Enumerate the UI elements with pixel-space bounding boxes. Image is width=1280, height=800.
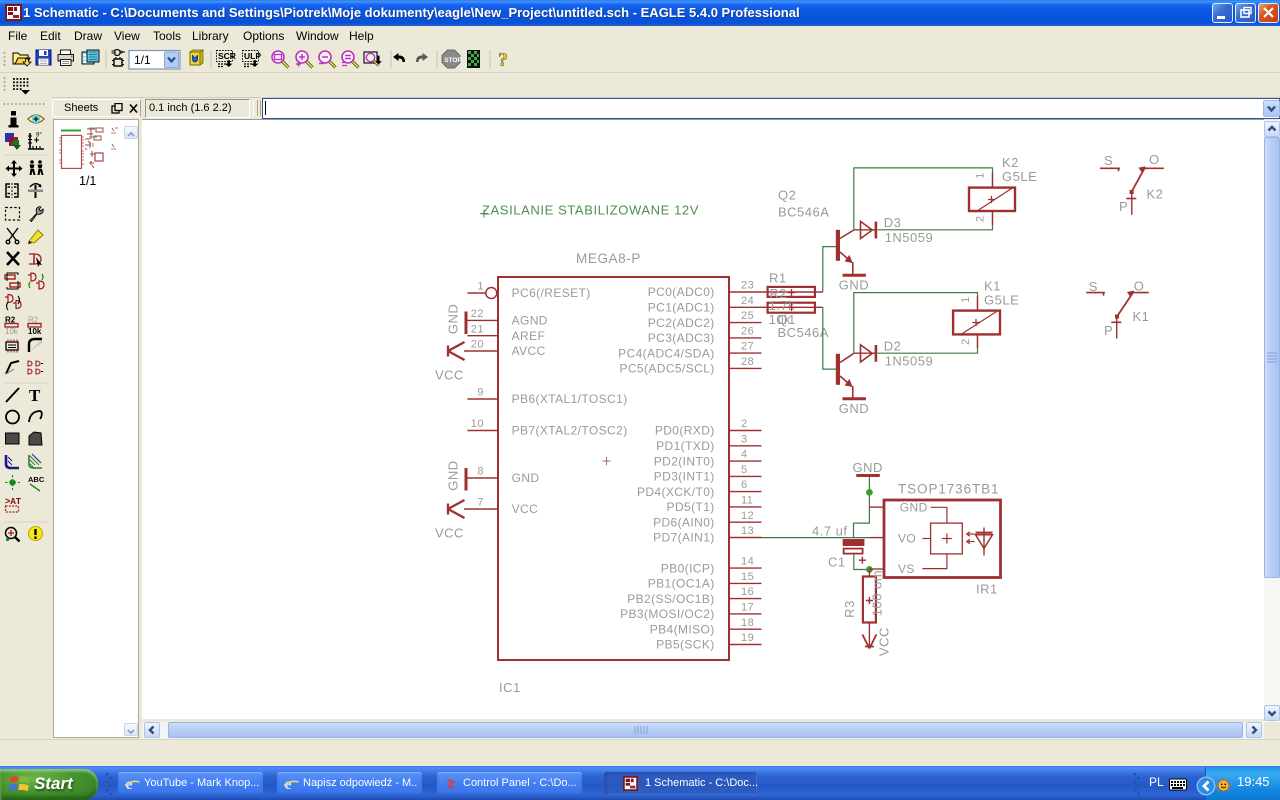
junction dot VS net [866, 566, 873, 573]
net from D3 cathode to relay K2 pin2 [878, 211, 993, 230]
pin 21 AREF [467, 323, 545, 343]
pin 10 PB7(XTAL2/TOSC2) [467, 418, 627, 438]
svg-text:PC1(ADC1): PC1(ADC1) [648, 301, 715, 315]
svg-text:14: 14 [741, 556, 754, 568]
IR receiver module IR1 TSOP1736 [884, 500, 1001, 578]
svg-text:G5LE: G5LE [1002, 169, 1037, 184]
svg-text:10k: 10k [28, 327, 42, 336]
svg-text:GND: GND [446, 460, 461, 490]
capacitor C1 [843, 539, 870, 570]
svg-text:ZASILANIE STABILIZOWANE 12V: ZASILANIE STABILIZOWANE 12V [482, 203, 699, 218]
svg-text:IR1: IR1 [976, 582, 998, 597]
diode D2 [854, 345, 876, 362]
svg-text:15: 15 [741, 571, 754, 583]
svg-text:PD2(INT0): PD2(INT0) [654, 454, 715, 468]
svg-text:STOP: STOP [444, 57, 462, 64]
svg-text:22: 22 [471, 308, 484, 320]
pin 22 AGND [466, 308, 548, 328]
svg-text:19: 19 [741, 632, 754, 644]
right pins PB0-PB5 [620, 556, 761, 652]
pin 20 AVCC [464, 339, 546, 359]
svg-text:GND: GND [853, 460, 883, 475]
svg-text:PB3(MOSI/OC2): PB3(MOSI/OC2) [620, 607, 715, 621]
svg-text:21: 21 [471, 323, 484, 335]
svg-text:12: 12 [741, 510, 754, 522]
svg-text:GND: GND [839, 278, 869, 293]
right pins PD0-PD7 [637, 418, 762, 545]
svg-text:PD7(AIN1): PD7(AIN1) [653, 531, 715, 545]
ground bar below Q2 [843, 274, 866, 277]
svg-text:28: 28 [741, 356, 754, 368]
TSOP VS pin stub [869, 568, 884, 570]
IR light arrows [967, 532, 975, 544]
keyboard tray icon [1169, 778, 1187, 791]
op IC1 MEGA8-P body [498, 277, 729, 660]
svg-text:25: 25 [741, 310, 754, 322]
svg-text:T: T [29, 386, 41, 405]
svg-text:5: 5 [741, 464, 748, 476]
pin 1 PC6(/RESET) [467, 281, 590, 301]
VCC arrow at pin 7 [448, 500, 465, 518]
svg-text:AVCC: AVCC [512, 344, 546, 358]
net from D2 cathode to relay K1 pin2 [878, 334, 978, 353]
svg-text:G5LE: G5LE [984, 293, 1019, 308]
svg-text:P: P [1104, 323, 1113, 338]
svg-text:2: 2 [975, 215, 987, 222]
switch contact K1 [1086, 291, 1149, 338]
svg-text:PB0(ICP): PB0(ICP) [661, 561, 715, 575]
svg-text:PB7(XTAL2/TOSC2): PB7(XTAL2/TOSC2) [512, 424, 628, 438]
svg-text:PB4(MISO): PB4(MISO) [650, 622, 715, 636]
svg-text:4: 4 [741, 449, 748, 461]
svg-text:PD5(T1): PD5(T1) [667, 500, 715, 514]
svg-text:PB2(SS/OC1B): PB2(SS/OC1B) [627, 592, 715, 606]
svg-text:P: P [1119, 199, 1128, 214]
TSOP internal plus [942, 534, 952, 544]
svg-text:R3: R3 [842, 600, 857, 618]
svg-text:D2: D2 [884, 339, 902, 354]
svg-text:PC5(ADC5/SCL): PC5(ADC5/SCL) [619, 362, 714, 376]
svg-text:K1: K1 [984, 279, 1001, 294]
svg-text:PC4(ADC4/SDA): PC4(ADC4/SDA) [618, 346, 715, 360]
svg-text:PC6(/RESET): PC6(/RESET) [512, 286, 591, 300]
svg-text:AREF: AREF [512, 329, 546, 343]
svg-text:VO: VO [898, 532, 916, 546]
svg-text:100 om: 100 om [870, 570, 885, 616]
svg-text:24: 24 [741, 295, 754, 307]
svg-text:PD6(AIN0): PD6(AIN0) [653, 515, 715, 529]
TSOP VO pin stub [870, 537, 884, 539]
net from Q1 collector up and to relay K1 pin1 [854, 293, 978, 354]
svg-text:VCC: VCC [435, 368, 464, 383]
pin 7 VCC [464, 497, 538, 517]
svg-text:18: 18 [741, 617, 754, 629]
svg-text:S: S [1104, 153, 1113, 168]
resistor R2 [762, 303, 823, 313]
svg-text:1/1: 1/1 [134, 53, 151, 67]
net GND bar down to TSOP GND pin and C1 top [854, 477, 870, 538]
TSOP internal wiring VS [922, 554, 947, 569]
svg-text:8: 8 [477, 466, 484, 478]
svg-text:ABC: ABC [28, 475, 45, 484]
TSOP internal wiring VO [922, 538, 930, 540]
ground bar at pin 8 [465, 468, 468, 491]
svg-text:PD4(XCK/T0): PD4(XCK/T0) [637, 485, 715, 499]
svg-text:VS: VS [898, 562, 915, 576]
svg-text:TSOP1736TB1: TSOP1736TB1 [898, 482, 999, 497]
svg-text:C1: C1 [828, 555, 846, 570]
green label ZASILANIE STABILIZOWANE 12V [480, 203, 699, 218]
ground bar at pin 22 [465, 312, 468, 335]
pin 8 GND [466, 466, 539, 486]
svg-text:IC1: IC1 [499, 680, 521, 695]
svg-text:1N5059: 1N5059 [885, 354, 934, 369]
svg-text:11: 11 [741, 495, 753, 507]
svg-text:13: 13 [741, 525, 754, 537]
svg-text:17: 17 [741, 602, 754, 614]
TSOP internal wiring GND [931, 507, 947, 523]
svg-text:9: 9 [477, 387, 484, 399]
svg-text:PC2(ADC2): PC2(ADC2) [648, 316, 715, 330]
resistor R1 [762, 287, 823, 297]
svg-text:2: 2 [960, 338, 972, 345]
svg-text:MEGA8-P: MEGA8-P [576, 251, 641, 266]
svg-text:10k: 10k [5, 327, 19, 336]
svg-text:O: O [1149, 152, 1160, 167]
sun icon [1216, 778, 1231, 793]
VCC arrow at pin 20 [448, 342, 465, 360]
svg-text:PB1(OC1A): PB1(OC1A) [648, 577, 715, 591]
junction dot GND net [866, 489, 873, 496]
resistor R3 [863, 570, 876, 649]
svg-text:BC546A: BC546A [778, 205, 829, 220]
svg-text:ULP: ULP [244, 51, 261, 61]
svg-text:PB5(SCK): PB5(SCK) [656, 638, 715, 652]
svg-text:VCC: VCC [512, 502, 539, 516]
svg-text:VCC: VCC [876, 627, 891, 656]
R2 origin cross [788, 304, 795, 311]
svg-text:PB6(XTAL1/TOSC1): PB6(XTAL1/TOSC1) [512, 392, 628, 406]
svg-text:K2: K2 [1002, 155, 1019, 170]
wire net R1 to Q2 base [823, 247, 836, 292]
svg-text:PC3(ADC3): PC3(ADC3) [648, 331, 715, 345]
ground bar above TSOP [856, 474, 880, 477]
svg-text:GND: GND [839, 401, 869, 416]
svg-text:7: 7 [477, 497, 484, 509]
net PD7 pin13 to C1 and TSOP VO [762, 537, 871, 539]
svg-text:4.7 uf: 4.7 uf [812, 524, 848, 539]
svg-text:2: 2 [741, 418, 748, 430]
language bar circle icon [1196, 776, 1216, 796]
right pins PC0-PC5 [618, 280, 761, 376]
ground bar below Q1 [843, 397, 866, 400]
diode D3 [854, 221, 876, 238]
transistor Q1 [836, 353, 854, 397]
svg-text:9°: 9° [36, 133, 42, 139]
svg-text:PC0(ADC0): PC0(ADC0) [648, 285, 715, 299]
svg-text:O: O [1134, 279, 1145, 294]
svg-text:3: 3 [741, 433, 748, 445]
relay K1 coil [953, 297, 1000, 349]
wire net R2 to Q1 base [823, 307, 836, 369]
svg-text:16: 16 [741, 586, 754, 598]
svg-text:AGND: AGND [512, 314, 548, 328]
svg-text:27: 27 [741, 341, 754, 353]
svg-text:1N5059: 1N5059 [885, 230, 934, 245]
svg-text:PD0(RXD): PD0(RXD) [655, 424, 715, 438]
net from Q2 collector up and to relay K2 pin1 [854, 168, 993, 230]
svg-text:1: 1 [477, 281, 484, 293]
svg-text:1: 1 [960, 296, 972, 303]
TSOP internal box [931, 523, 963, 554]
switch contact K2 [1100, 167, 1164, 215]
relay K2 coil [969, 173, 1015, 226]
svg-text:D3: D3 [884, 215, 902, 230]
svg-text:VCC: VCC [435, 526, 464, 541]
svg-text:26: 26 [741, 326, 754, 338]
svg-text:S: S [1089, 279, 1098, 294]
svg-text:R1: R1 [769, 271, 787, 286]
svg-text:GND: GND [512, 471, 540, 485]
svg-text:20: 20 [471, 339, 484, 351]
svg-text:10: 10 [471, 418, 484, 430]
svg-text:K2: K2 [1147, 187, 1164, 202]
R1 origin cross [788, 289, 795, 296]
svg-text:BC546A: BC546A [778, 325, 829, 340]
svg-text:23: 23 [741, 280, 754, 292]
IC1 origin cross [603, 457, 611, 465]
TSOP photodiode [976, 528, 993, 556]
TSOP GND pin stub [869, 506, 884, 508]
svg-text:PD3(INT1): PD3(INT1) [654, 470, 715, 484]
svg-text:SCR: SCR [218, 51, 236, 61]
svg-text:GND: GND [900, 501, 928, 515]
svg-text:K1: K1 [1133, 309, 1150, 324]
svg-text:1: 1 [975, 172, 987, 179]
VCC arrow below R3 [862, 635, 876, 649]
svg-text:?: ? [498, 49, 508, 71]
svg-text:6: 6 [741, 479, 748, 491]
svg-text:Q2: Q2 [778, 188, 796, 203]
svg-text:PD1(TXD): PD1(TXD) [656, 439, 715, 453]
svg-text:GND: GND [446, 304, 461, 334]
pin 9 PB6(XTAL1/TOSC1) [467, 387, 627, 407]
transistor Q2 [836, 230, 854, 274]
